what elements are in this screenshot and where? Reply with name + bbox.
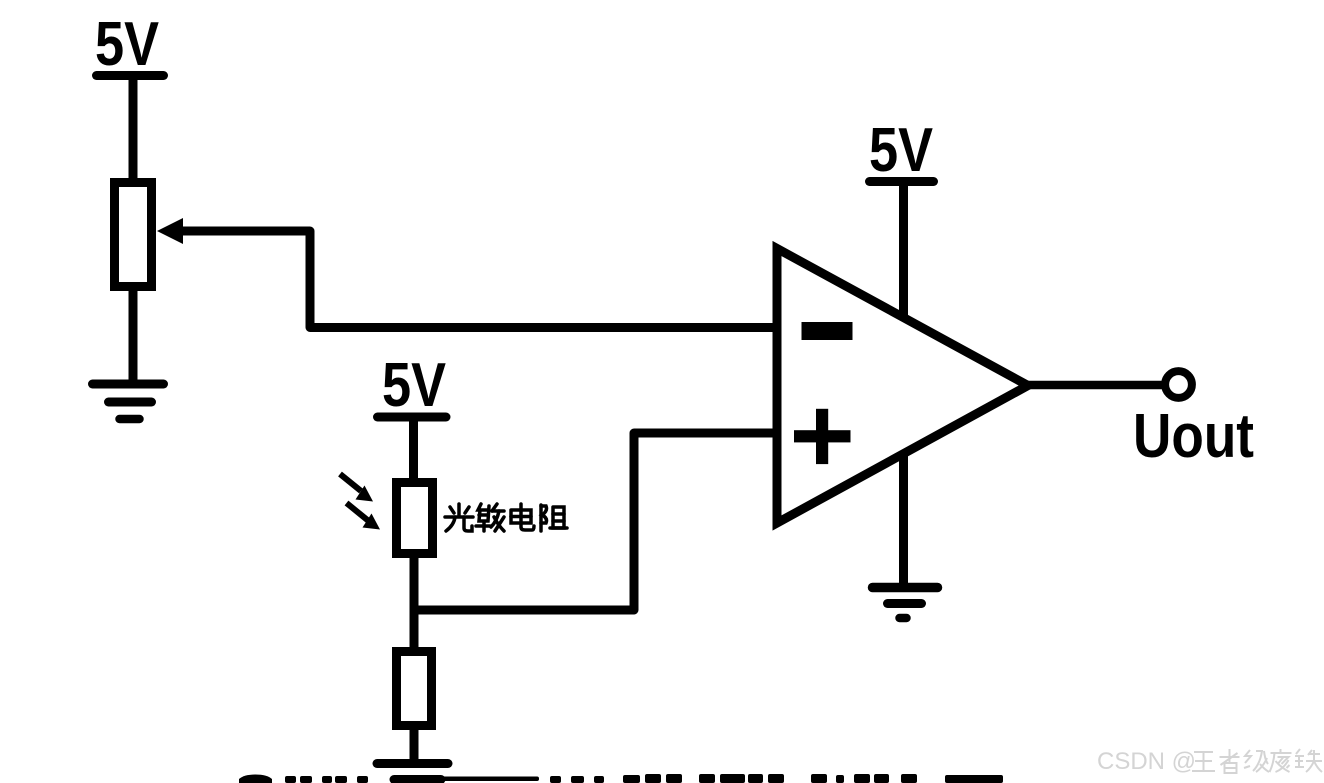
- 者: [1220, 749, 1240, 773]
- 5V rail bar (potentiometer branch): [97, 71, 164, 80]
- 5V rail bar (photoresistor branch): [378, 413, 447, 422]
- watermark CSDN @王者级废铁: [1097, 748, 1322, 775]
- 电: [511, 504, 534, 530]
- svg-text:Uout: Uout: [1133, 402, 1254, 471]
- wire: R2 bottom to ground: [410, 725, 419, 763]
- op-amp inverting input marker (minus): [802, 322, 853, 340]
- resistor R2 body (lower divider resistor): [397, 652, 432, 726]
- output terminal circle: [1165, 371, 1192, 398]
- 敏: [476, 504, 504, 531]
- wire: potentiometer bottom to ground: [129, 287, 138, 384]
- 废: [1270, 749, 1292, 772]
- light arrow 2: [347, 503, 381, 530]
- wire: 5V rail to op-amp positive supply pin: [899, 181, 908, 318]
- svg-text:5V: 5V: [382, 351, 446, 420]
- potentiometer R1 body: [115, 183, 152, 287]
- 王: [1192, 752, 1215, 771]
- wire: op-amp negative supply pin to ground: [899, 454, 908, 587]
- svg-text:5V: 5V: [95, 10, 159, 79]
- 5V rail bar (op-amp): [870, 177, 934, 186]
- photoresistor body: [397, 483, 433, 554]
- op-amp non-inverting input marker (plus): [794, 430, 851, 442]
- 阻: [541, 505, 567, 531]
- svg-text:CSDN @: CSDN @: [1097, 748, 1196, 775]
- wire: op-amp output to terminal: [1026, 381, 1166, 390]
- 铁: [1295, 749, 1322, 772]
- 级: [1244, 750, 1269, 772]
- ground (op-amp): [873, 588, 938, 619]
- label 光敏电阻 (photoresistor): [445, 504, 567, 531]
- wire: wiper to inverting input (shaft, down, right): [179, 231, 777, 328]
- 光: [445, 504, 473, 531]
- wire: 5V rail to photoresistor top: [409, 417, 418, 482]
- svg-text:5V: 5V: [869, 116, 933, 185]
- wire: node junction right, up, right to non-inverting input: [414, 433, 777, 610]
- ground (photoresistor branch, partially cut off): [377, 764, 448, 780]
- wire: photoresistor bottom through node to lower resistor: [410, 553, 419, 651]
- wire: 5V rail to potentiometer top: [129, 75, 138, 182]
- op-amp U1 triangle: [777, 249, 1028, 524]
- potentiometer wiper arrowhead: [157, 218, 183, 244]
- caption text (cut off at page bottom): [239, 774, 1003, 783]
- ground (potentiometer branch): [93, 384, 164, 419]
- light arrow 1: [340, 474, 373, 502]
